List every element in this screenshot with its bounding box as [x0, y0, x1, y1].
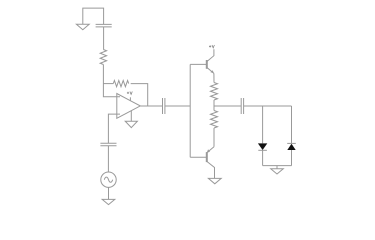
resistor R4 [211, 111, 218, 129]
wire [262, 106, 264, 143]
wire [263, 165, 292, 167]
op-amp U1 [117, 94, 141, 119]
capacitor C4 [100, 143, 116, 145]
wire [140, 105, 162, 107]
diode D2 [287, 143, 296, 150]
wire [213, 100, 215, 111]
wire [291, 150, 293, 166]
wire [107, 146, 109, 172]
resistor R1 [100, 50, 106, 65]
ground [102, 199, 115, 204]
+V label [209, 45, 214, 48]
resistor R2 [113, 81, 128, 87]
ground [76, 24, 89, 30]
capacitor C2 [163, 98, 165, 114]
diode D1 [258, 143, 267, 150]
wire [190, 156, 207, 158]
wire [108, 187, 110, 199]
wire [103, 27, 105, 50]
wire [103, 83, 113, 85]
resistor R3 [211, 83, 218, 101]
ground [208, 178, 221, 183]
wire [213, 128, 215, 147]
ground [125, 111, 137, 128]
+V label [127, 92, 132, 95]
wire / bus [189, 64, 191, 157]
wire [213, 73, 215, 82]
wire [190, 63, 207, 65]
wire [291, 106, 293, 143]
wire / node A [103, 65, 120, 97]
capacitor C1 [96, 24, 112, 27]
wire [165, 105, 190, 107]
wire [108, 114, 120, 143]
transistor Q1 [207, 49, 214, 73]
AC source V1 [101, 172, 116, 187]
wire [244, 105, 292, 107]
ground [271, 166, 284, 174]
wire [131, 84, 148, 106]
wire [214, 105, 241, 107]
wire [262, 150, 264, 165]
wire [83, 8, 104, 24]
capacitor C3 [241, 98, 243, 114]
transistor Q2 [207, 147, 215, 179]
